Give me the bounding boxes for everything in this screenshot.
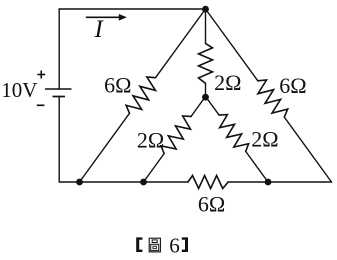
current arrow I shaft <box>86 16 120 18</box>
wire inner left upper <box>191 97 205 117</box>
resistor 2ohm inner-left zigzag <box>161 116 191 154</box>
battery V1 long plate <box>45 88 72 90</box>
wire left vertical upper <box>58 9 60 89</box>
wire triangle right side upper <box>206 9 258 81</box>
wire bottom left segment <box>59 181 188 183</box>
wire vertical branch lower <box>205 83 207 97</box>
resistor 6ohm bottom zigzag <box>188 176 228 189</box>
svg-text:6: 6 <box>169 233 180 257</box>
wire triangle left side upper <box>156 9 206 78</box>
wire inner left lower <box>144 154 165 182</box>
resistor 6ohm left diagonal zigzag <box>126 77 155 113</box>
svg-text:6Ω: 6Ω <box>104 73 131 98</box>
svg-text:10V: 10V <box>1 78 37 102</box>
wire inner right lower <box>246 151 268 182</box>
wire triangle left side lower <box>80 113 130 182</box>
resistor 6ohm right diagonal zigzag <box>258 80 288 117</box>
caption glyph tu (figure) <box>149 238 160 252</box>
battery V1 short plate <box>53 96 66 98</box>
resistor 2ohm vertical zigzag <box>199 43 213 83</box>
resistor 2ohm inner-right zigzag <box>219 115 249 152</box>
wire bottom right segment <box>228 181 331 183</box>
node bottom-right <box>265 179 272 186</box>
wire left vertical lower <box>58 97 60 183</box>
wire triangle right side lower <box>284 117 331 182</box>
node middle <box>202 94 209 101</box>
wire inner right upper <box>206 97 220 116</box>
svg-text:2Ω: 2Ω <box>214 70 241 95</box>
battery plus sign <box>37 71 45 79</box>
wire vertical branch upper <box>205 9 207 43</box>
node bottom-mid <box>140 179 147 186</box>
caption bracket right <box>182 237 188 252</box>
node bottom-left <box>76 179 83 186</box>
wire top horizontal <box>59 8 205 10</box>
svg-text:2Ω: 2Ω <box>251 127 278 152</box>
battery minus sign <box>37 104 45 106</box>
svg-text:6Ω: 6Ω <box>279 73 306 98</box>
svg-text:6Ω: 6Ω <box>198 192 225 217</box>
caption bracket left <box>136 237 142 252</box>
current arrow I head <box>119 14 127 21</box>
node apex <box>202 6 209 13</box>
svg-text:2Ω: 2Ω <box>137 128 164 153</box>
